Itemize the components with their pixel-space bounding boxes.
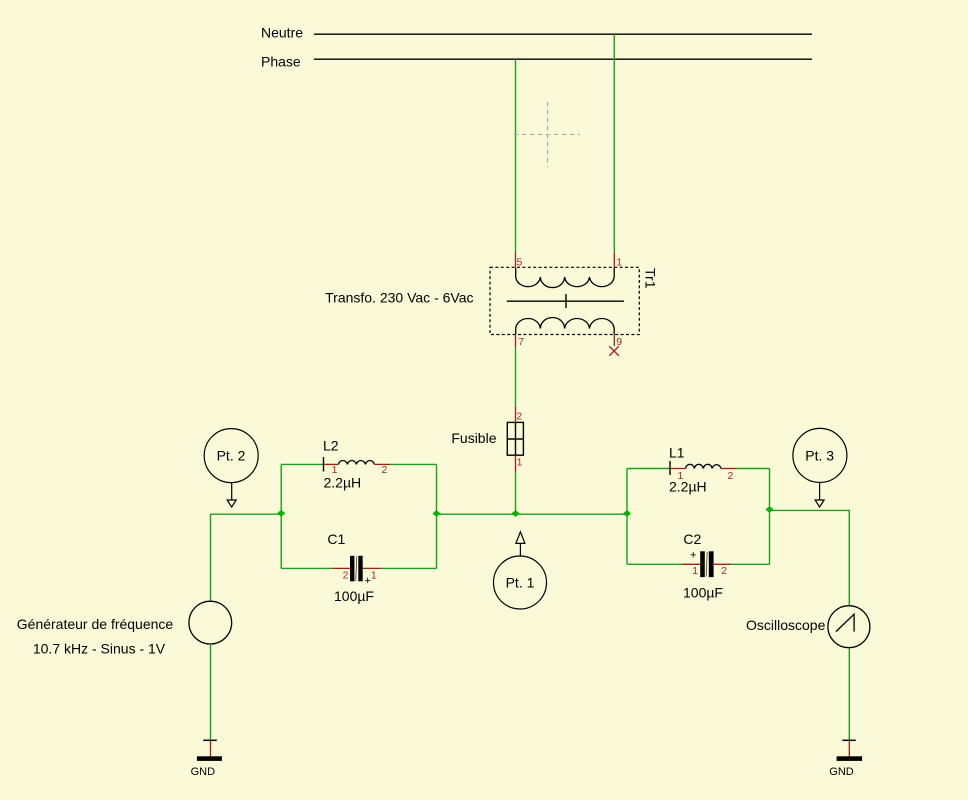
left filter loop: wire left side <box>280 464 282 568</box>
svg-text:9: 9 <box>616 336 622 348</box>
oscilloscope symbol <box>828 606 870 648</box>
svg-text:C1: C1 <box>327 531 345 547</box>
svg-text:Oscilloscope: Oscilloscope <box>746 617 826 633</box>
svg-text:Pt. 2: Pt. 2 <box>217 448 246 464</box>
ground GND left <box>191 740 222 778</box>
svg-text:2.2µH: 2.2µH <box>669 479 707 495</box>
svg-text:1: 1 <box>616 257 622 269</box>
junction node at left loop east <box>433 510 441 517</box>
junction node at right loop east <box>766 506 774 513</box>
svg-text:GND: GND <box>191 766 216 778</box>
wire fuse to main bus <box>515 472 517 514</box>
right filter loop: wire left side <box>626 469 628 565</box>
svg-text:Fusible: Fusible <box>451 430 496 446</box>
cursor crosshair <box>514 102 580 167</box>
svg-text:2: 2 <box>382 464 388 476</box>
wire bus middle segment <box>437 513 628 515</box>
svg-text:7: 7 <box>518 336 524 348</box>
Tr1 pin 5 <box>515 253 517 268</box>
test point Pt. 3 <box>793 428 847 507</box>
right filter loop: wire top edge segments <box>627 468 670 470</box>
wire bus left segment with corner down to generator <box>211 514 282 601</box>
wire from Neutre to Tr1 pin 1 <box>613 34 615 252</box>
fuse pin 1 <box>515 455 517 472</box>
svg-text:1: 1 <box>517 457 523 469</box>
svg-text:Neutre: Neutre <box>261 25 303 41</box>
capacitor C1 <box>327 531 381 604</box>
wire Phase bus <box>314 58 812 60</box>
svg-text:GND: GND <box>829 766 854 778</box>
wire oscilloscope to ground <box>848 648 850 740</box>
svg-text:2: 2 <box>728 470 734 482</box>
test point Pt. 2 <box>204 429 258 507</box>
svg-text:100µF: 100µF <box>683 585 723 601</box>
svg-text:Pt. 1: Pt. 1 <box>506 575 535 591</box>
fuse pin 2 <box>515 407 517 423</box>
svg-text:Pt. 3: Pt. 3 <box>805 448 834 464</box>
fuse F1 Fusible <box>507 422 523 455</box>
svg-text:5: 5 <box>517 257 523 269</box>
svg-text:2: 2 <box>516 411 522 423</box>
inductor L1 <box>669 445 736 495</box>
Tr1 pin 9 <box>613 335 615 347</box>
svg-text:100µF: 100µF <box>334 588 374 604</box>
junction node at right loop west <box>623 510 631 517</box>
right filter loop: wire bottom edge segments <box>627 563 682 565</box>
wire Neutre bus <box>314 33 812 35</box>
svg-text:2: 2 <box>721 565 727 577</box>
svg-text:2: 2 <box>343 569 349 581</box>
inductor L2 <box>323 438 390 491</box>
transformer Tr1 <box>490 267 639 334</box>
svg-text:Générateur de fréquence: Générateur de fréquence <box>17 616 174 632</box>
Tr1 pin 1 <box>613 253 615 268</box>
wire Tr1 pin 7 to fuse <box>515 348 517 407</box>
svg-text:1: 1 <box>371 569 377 581</box>
left filter loop: wire right side <box>436 464 438 568</box>
junction node at left loop west <box>277 510 285 517</box>
test point Pt. 1 <box>494 532 547 609</box>
svg-text:1: 1 <box>692 565 698 577</box>
svg-text:Tr1: Tr1 <box>643 268 659 289</box>
left filter loop: wire top edge segments <box>281 463 323 465</box>
right filter loop: wire right side <box>769 469 771 565</box>
svg-text:C2: C2 <box>683 531 701 547</box>
svg-text:2.2µH: 2.2µH <box>324 475 362 491</box>
svg-text:+: + <box>365 575 371 587</box>
junction node at fuse tap <box>512 510 520 517</box>
no-connect X on Tr1 pin 9 <box>609 346 619 356</box>
ground GND right <box>829 740 862 778</box>
left filter loop: wire bottom edge segments <box>281 567 332 569</box>
svg-text:L2: L2 <box>323 438 339 454</box>
wire from Phase to Tr1 pin 5 <box>515 59 517 252</box>
generator G1 circle <box>189 601 232 644</box>
svg-text:L1: L1 <box>669 445 685 461</box>
wire right branch to oscilloscope <box>770 510 850 605</box>
svg-text:Transfo. 230 Vac - 6Vac: Transfo. 230 Vac - 6Vac <box>325 290 473 306</box>
wire generator to ground <box>210 644 212 740</box>
svg-text:10.7 kHz - Sinus - 1V: 10.7 kHz - Sinus - 1V <box>33 641 166 657</box>
capacitor C2 <box>682 531 731 601</box>
svg-text:+: + <box>690 550 696 562</box>
Tr1 pin 7 <box>515 335 517 348</box>
svg-text:Phase: Phase <box>261 54 301 70</box>
